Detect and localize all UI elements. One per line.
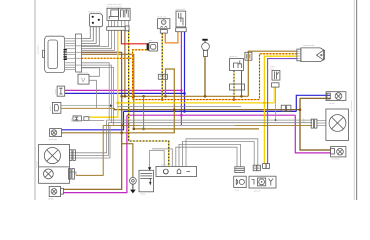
svg-text:flasher relay: flasher relay bbox=[158, 16, 167, 18]
page border left bbox=[34, 0, 36, 200]
node: magenta junction bbox=[180, 89, 183, 92]
wire: CDI pin7 to generator bbox=[186, 139, 258, 167]
left connector component upper bbox=[57, 86, 65, 96]
wire: brake switch yellow lead bbox=[273, 87, 275, 103]
wire: magenta bus lower M2 bbox=[127, 114, 295, 116]
page border right double bbox=[353, 0, 355, 200]
wire: horn feed bbox=[122, 144, 133, 178]
wire: tan link down bbox=[143, 96, 145, 129]
node: tan junctions on T0 bbox=[120, 95, 123, 98]
generator connector pair right bbox=[263, 164, 266, 169]
ignition coil bbox=[230, 59, 244, 71]
svg-text:3 4 5 6 1 8 2: 3 4 5 6 1 8 2 bbox=[161, 165, 170, 167]
rear blinker lamp bbox=[331, 147, 346, 157]
headlight connector pair lower bbox=[69, 169, 71, 180]
wire: brown headlamp low feed bbox=[76, 125, 103, 175]
wire: magenta drop to rear blinker bbox=[295, 115, 330, 153]
wire: tan speedo feed 2 to horn bbox=[82, 54, 134, 129]
svg-text:G: G bbox=[162, 20, 165, 25]
wire: dashed bus D1 bbox=[133, 99, 260, 101]
wire: blue vertical from winker switch bbox=[184, 32, 186, 112]
fuse bbox=[147, 43, 149, 50]
CDI unit bbox=[156, 166, 197, 176]
wire: CDI pin6 to generator bbox=[183, 142, 255, 167]
wire: brown from key switch bbox=[124, 30, 126, 96]
wire: tan long vertical to taillamp bottom bbox=[63, 96, 121, 189]
wire: headlight connector stubs bbox=[70, 152, 77, 154]
wire: brown vertical to rear lamps bbox=[300, 98, 331, 150]
wire: right headlight connector stubs bbox=[317, 120, 326, 122]
node: T1 join rear vertical bbox=[299, 108, 302, 111]
ignition main switch bbox=[107, 8, 130, 20]
node: T1 x tan vertical bbox=[173, 108, 176, 111]
wire: tan bus T2b to meter lamp bbox=[62, 69, 175, 133]
voltmeter V bbox=[78, 74, 89, 84]
svg-text:brake: brake bbox=[271, 66, 275, 68]
inline connector on magneto tan lead bbox=[245, 52, 252, 60]
headlight right big bbox=[326, 109, 349, 141]
svg-text:speed sensor: speed sensor bbox=[79, 73, 89, 75]
ignition switch connector strip bbox=[107, 27, 126, 31]
headlight right connector bbox=[311, 119, 313, 128]
speedometer pin stubs bbox=[65, 39, 76, 70]
coil connector bar bbox=[230, 84, 245, 90]
left rectifier component lower bbox=[52, 102, 61, 113]
ignition switch legs to connector bbox=[108, 20, 110, 26]
inline connector on flasher dashed wire bbox=[158, 74, 167, 79]
wire: magenta vertical from winker switch bbox=[180, 32, 182, 126]
wire: blue drop to meter lamp bbox=[62, 111, 124, 129]
wire: speedo gray join line1 bbox=[82, 63, 110, 120]
pickup coil box bbox=[234, 176, 247, 187]
speedometer body bbox=[45, 36, 65, 72]
wire: coil dashed lead bbox=[233, 71, 235, 100]
G box connector bbox=[160, 30, 167, 33]
wire: spark plug lead bbox=[204, 56, 206, 96]
ground symbol bbox=[132, 184, 134, 189]
headlight connector pair upper bbox=[70, 150, 72, 161]
tail light bbox=[326, 92, 346, 101]
winker switch tall box bbox=[176, 11, 186, 27]
wire: brake switch gray lead bbox=[275, 87, 277, 120]
node: magenta junction lower bbox=[180, 114, 183, 117]
wire: red from key switch to fuse bbox=[121, 30, 146, 44]
wire: G-box dashed lead bbox=[161, 33, 163, 100]
wire: headlight line3 riser bbox=[76, 125, 110, 158]
svg-text:rear blinker: rear blinker bbox=[332, 159, 340, 161]
node: tan junction T2 bbox=[142, 128, 145, 131]
svg-text:wiring diagram: wiring diagram bbox=[38, 44, 40, 55]
node: blue junction lower bbox=[183, 110, 186, 113]
brake switch connector bbox=[272, 83, 279, 87]
wire: tan to magneto unit bbox=[248, 51, 297, 96]
wire: CDI pin5 to pickup bbox=[179, 144, 241, 166]
wire: blue riser to tail light bbox=[296, 95, 330, 111]
node: blue junction upper bbox=[183, 92, 186, 95]
ignition feed connector pair bbox=[73, 116, 81, 121]
pickup connector stack bbox=[235, 167, 245, 173]
wire: speedo gray join line2 bbox=[82, 67, 114, 125]
wire: V meter leads bbox=[82, 68, 100, 77]
tail lamp bottom left bbox=[49, 186, 60, 196]
generator box bbox=[249, 176, 276, 188]
speedometer connector strip bbox=[76, 34, 82, 72]
wire: tan speedo feed 1 bbox=[82, 52, 122, 96]
wire: orange U between G box and winker switch bbox=[165, 32, 178, 43]
wire: headlight harness line1 to right headlight bbox=[76, 120, 312, 153]
wire: dashed from fuse bbox=[133, 50, 147, 100]
magneto connector tab bbox=[297, 49, 301, 61]
wire: CDI pin3 harness bbox=[152, 149, 172, 167]
wire: handlebar switch legs bbox=[82, 27, 91, 39]
wire: headlight harness line2 to right headlight bbox=[76, 123, 312, 156]
svg-text:V: V bbox=[81, 77, 86, 84]
inline fuse boxes on T1 bbox=[281, 105, 285, 111]
wire: yellow from ignition switch Y1 bbox=[89, 30, 118, 117]
wire: magenta bus upper M1 bbox=[65, 89, 182, 91]
wire: brown T1 bus bbox=[114, 108, 300, 109]
headlight left dual box bbox=[39, 145, 70, 184]
wire: yellow magneto-generator lead bbox=[264, 56, 297, 163]
wire: magneto dashed lead bbox=[260, 54, 297, 100]
meter lamp small bbox=[50, 129, 62, 137]
wire: blue bus upper B1 bbox=[65, 92, 185, 94]
spark plug bbox=[202, 39, 207, 41]
brake switch bbox=[272, 71, 280, 81]
node: T2a corner junction bbox=[133, 128, 136, 131]
wire: tan bus T0 bbox=[122, 95, 249, 97]
svg-text:fuse: fuse bbox=[149, 40, 152, 42]
node: yellow junction bbox=[116, 102, 119, 105]
node: dashed junction bbox=[161, 98, 164, 101]
wire: tan harness line3 to right headlight bbox=[103, 124, 140, 126]
wire: magenta drop to taillamp left bbox=[63, 115, 127, 192]
wire: CDI pin1 to battery bbox=[150, 151, 165, 169]
wire: tan bus T2a bbox=[134, 128, 259, 130]
arrowhead into battery bbox=[148, 167, 151, 170]
node: yellow junction right bbox=[263, 102, 266, 105]
speedometer pin dots bbox=[64, 49, 67, 60]
wire: ignition switch gray legs bbox=[82, 30, 109, 46]
winker switch connector bbox=[176, 28, 187, 32]
wire: blue bus lower B2 bbox=[124, 110, 297, 112]
generator connector pair left bbox=[253, 165, 256, 171]
wire: CDI pin4 to pickup bbox=[176, 147, 237, 167]
wire: violet magneto-generator lead bbox=[268, 59, 297, 164]
flasher relay G box bbox=[158, 19, 170, 29]
node: junction on T2b bbox=[120, 132, 123, 135]
svg-text:main: main bbox=[71, 118, 73, 122]
battery bbox=[139, 170, 154, 192]
wire: yellow bus Y2 bbox=[118, 102, 274, 104]
wire: speedo dashed feed bbox=[82, 57, 133, 59]
magneto (AC generator unit) bbox=[301, 48, 325, 62]
wire: brown to tail lamp top bbox=[300, 97, 331, 99]
horn circle bbox=[130, 177, 137, 184]
wire: gray bus from speedometer bbox=[82, 65, 112, 123]
handle bar switch bbox=[89, 14, 102, 27]
wire: yellow-black dashed from key switch to CDI bbox=[129, 30, 169, 166]
wire: coil tan lead bbox=[241, 71, 243, 97]
